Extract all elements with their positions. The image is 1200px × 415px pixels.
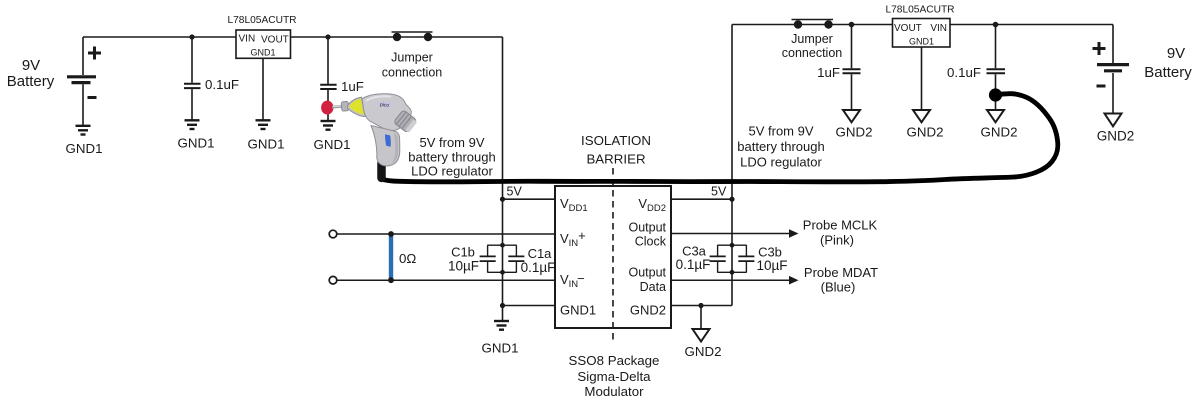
svg-text:5V: 5V — [507, 185, 523, 199]
svg-text:connection: connection — [782, 46, 843, 60]
svg-text:VIN: VIN — [930, 23, 947, 34]
svg-text:Output: Output — [628, 221, 666, 235]
wire 5V drop (left) — [502, 37, 504, 321]
svg-text:GND2: GND2 — [836, 125, 873, 140]
svg-text:1uF: 1uF — [341, 79, 364, 94]
jumper connection J1 — [392, 31, 433, 33]
arrow MCLK — [789, 229, 799, 238]
svg-text:GND2: GND2 — [630, 303, 666, 318]
svg-text:battery through: battery through — [737, 139, 824, 154]
node VDD2/5V — [729, 197, 734, 202]
svg-text:1uF: 1uF — [817, 65, 840, 80]
svg-text:Battery: Battery — [1144, 64, 1192, 81]
wire U1 ground — [262, 58, 264, 120]
svg-text:L78L05ACUTR: L78L05ACUTR — [227, 15, 296, 26]
svg-text:5V from 9V: 5V from 9V — [748, 124, 813, 139]
probe rear cylinder — [393, 110, 417, 134]
ground GND1 (1uF / probe tip) — [321, 121, 336, 130]
wire top-right rail — [732, 24, 893, 26]
node 0.1uF tap (right) — [993, 22, 999, 28]
svg-text:0.1µF: 0.1µF — [676, 257, 711, 272]
svg-text:0.1uF: 0.1uF — [205, 77, 239, 92]
ground GND2 (battery right, triangle) — [1105, 114, 1122, 127]
svg-text:(Blue): (Blue) — [821, 280, 856, 295]
probe cable stub from handle — [377, 163, 386, 178]
probe front cone (grey) — [348, 97, 366, 116]
wire VDD1 feed — [503, 198, 556, 200]
terminal VIN- — [329, 276, 337, 284]
svg-text:10µF: 10µF — [448, 259, 479, 274]
ground GND1 (0.1uF) — [185, 120, 200, 129]
wire U3 ground — [921, 47, 923, 110]
ground GND2 (U3, triangle) — [913, 110, 930, 122]
svg-text:9V: 9V — [22, 57, 40, 74]
svg-text:SSO8 Package: SSO8 Package — [569, 353, 660, 368]
svg-text:L78L05ACUTR: L78L05ACUTR — [885, 5, 954, 16]
svg-text:Data: Data — [640, 280, 666, 294]
probe collar — [341, 101, 349, 111]
probe tip red dot — [321, 101, 333, 115]
capacitor pair C3a/C3b — [710, 245, 755, 272]
svg-text:GND2: GND2 — [907, 125, 944, 140]
capacitor pair C1b/C1a — [480, 245, 525, 272]
svg-text:LDO regulator: LDO regulator — [411, 164, 493, 179]
wire VIN+ — [337, 233, 555, 235]
capacitor 1uF (right) — [843, 25, 861, 111]
node GND1 join — [500, 303, 505, 308]
probe cone yellow — [350, 99, 364, 115]
node GND2 tap — [698, 303, 703, 308]
svg-text:VOUT: VOUT — [894, 23, 922, 34]
ground GND1 (U1) — [256, 120, 271, 129]
wire VDD2 feed — [671, 198, 732, 200]
svg-text:Probe MCLK: Probe MCLK — [803, 218, 878, 233]
svg-text:Sigma-Delta: Sigma-Delta — [577, 369, 651, 384]
svg-text:VIN: VIN — [239, 34, 256, 45]
svg-text:C1a: C1a — [528, 246, 553, 261]
svg-text:GND1: GND1 — [66, 141, 103, 156]
svg-text:5V from 9V: 5V from 9V — [419, 135, 484, 150]
wire VIN- — [337, 279, 555, 281]
ground GND1 (battery) — [76, 126, 91, 135]
svg-text:battery through: battery through — [408, 150, 495, 165]
ground GND2 (modulator, triangle) — [693, 329, 710, 342]
wire Output Data — [671, 279, 796, 281]
capacitor 0.1uF (input bypass) — [184, 37, 201, 120]
ground GND2 (1uF right, triangle) — [843, 110, 860, 122]
probe body top highlight — [365, 95, 392, 102]
svg-text:GND1: GND1 — [250, 48, 275, 58]
svg-text:GND1: GND1 — [248, 137, 285, 152]
wire GND2 from modulator — [671, 305, 732, 307]
ground GND2 (0.1uF right, triangle) — [987, 110, 1004, 122]
probe body — [362, 94, 411, 131]
svg-text:Output: Output — [628, 266, 666, 280]
svg-text:(Pink): (Pink) — [820, 233, 854, 248]
svg-text:GND1: GND1 — [909, 36, 934, 46]
wire 5V drop (right) — [731, 25, 733, 306]
svg-text:GND2: GND2 — [1097, 129, 1135, 144]
svg-text:GND1: GND1 — [560, 303, 596, 318]
svg-text:0.1µF: 0.1µF — [521, 260, 556, 275]
svg-text:BARRIER: BARRIER — [586, 152, 645, 167]
wire GND1 from modulator — [503, 305, 556, 307]
terminal VIN+ — [329, 230, 337, 238]
wire top-left rail — [83, 36, 236, 38]
isolation barrier dashed line — [612, 168, 614, 342]
svg-text:VOUT: VOUT — [261, 35, 289, 46]
svg-text:LDO regulator: LDO regulator — [740, 155, 822, 170]
wire GND2 stub — [700, 306, 702, 330]
svg-text:GND1: GND1 — [482, 341, 519, 356]
svg-text:GND1: GND1 — [178, 136, 215, 151]
svg-text:pico: pico — [380, 102, 390, 109]
ground GND1 (modulator) — [494, 321, 509, 330]
svg-text:GND2: GND2 — [685, 344, 722, 359]
battery B2 9V (right) — [1093, 25, 1130, 114]
svg-text:Probe MDAT: Probe MDAT — [804, 265, 878, 280]
svg-text:Battery: Battery — [7, 73, 55, 90]
svg-text:GND1: GND1 — [314, 137, 351, 152]
svg-text:0Ω: 0Ω — [399, 251, 416, 266]
svg-text:Jumper: Jumper — [391, 51, 433, 65]
svg-text:GND2: GND2 — [981, 125, 1018, 140]
probe handle — [371, 126, 400, 166]
probe blue logo — [378, 101, 391, 107]
svg-text:connection: connection — [382, 66, 443, 80]
svg-text:Clock: Clock — [635, 235, 667, 249]
svg-text:9V: 9V — [1167, 45, 1185, 62]
svg-text:10µF: 10µF — [756, 258, 787, 273]
svg-text:5V: 5V — [711, 185, 727, 199]
probe cable (thick) — [382, 94, 1058, 182]
resistor R1 0 ohm (blue link) — [389, 235, 393, 280]
arrow MDAT — [789, 276, 799, 285]
wire Output Clock — [671, 233, 796, 235]
node (0.1uF tap) — [189, 34, 194, 39]
svg-text:0.1uF: 0.1uF — [947, 65, 981, 80]
node (1uF tap) — [325, 34, 330, 39]
node cable end dot — [989, 88, 1002, 101]
node 1uF tap (right) — [849, 22, 855, 28]
probe trigger (blue) — [385, 134, 391, 147]
svg-text:Modulator: Modulator — [584, 384, 644, 399]
jumper connection J2 — [792, 19, 834, 21]
svg-text:Jumper: Jumper — [791, 32, 833, 46]
capacitor 0.1uF (right) — [987, 25, 1006, 111]
svg-text:C1b: C1b — [451, 245, 475, 260]
node VDD1/5V — [500, 197, 505, 202]
modulator U2 box — [555, 186, 671, 328]
probe needle — [332, 106, 344, 107]
probe handle heel shade — [392, 133, 399, 164]
capacitor 1uF (LDO output) — [320, 37, 336, 121]
svg-text:ISOLATION: ISOLATION — [581, 133, 651, 148]
battery B1 9V — [67, 37, 101, 125]
